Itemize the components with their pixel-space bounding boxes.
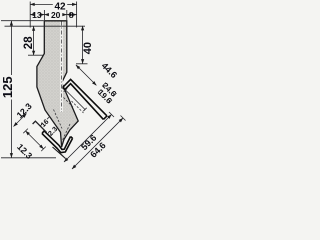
svg-text:8: 8 — [69, 10, 74, 20]
svg-text:28: 28 — [23, 36, 35, 49]
svg-text:20: 20 — [51, 10, 61, 20]
svg-text:13: 13 — [32, 10, 42, 20]
svg-text:125: 125 — [0, 76, 15, 98]
svg-text:44.6: 44.6 — [100, 61, 119, 80]
svg-text:40: 40 — [82, 42, 94, 54]
svg-text:12.3: 12.3 — [15, 101, 34, 120]
